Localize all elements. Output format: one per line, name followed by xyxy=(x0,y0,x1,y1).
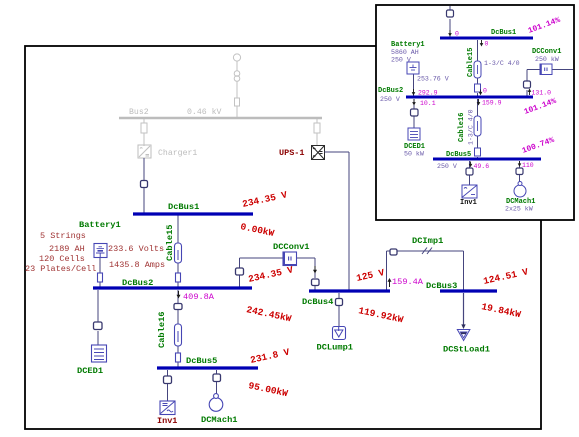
svg-text:DcBus4: DcBus4 xyxy=(302,297,333,307)
svg-text:DCImp1: DCImp1 xyxy=(412,236,443,246)
svg-text:131.0: 131.0 xyxy=(532,90,552,97)
svg-text:DCLump1: DCLump1 xyxy=(317,343,354,353)
svg-text:0: 0 xyxy=(485,41,489,48)
svg-text:DCMach1: DCMach1 xyxy=(201,415,238,425)
svg-text:Battery1: Battery1 xyxy=(391,41,425,49)
svg-text:Cable16: Cable16 xyxy=(458,113,466,142)
svg-text:159.4A: 159.4A xyxy=(392,277,424,287)
svg-text:0.46 kV: 0.46 kV xyxy=(187,107,221,117)
svg-text:250 V: 250 V xyxy=(380,96,400,103)
svg-text:233.6 Volts: 233.6 Volts xyxy=(108,244,164,254)
svg-text:Cable15: Cable15 xyxy=(165,225,175,262)
svg-text:DcBus2: DcBus2 xyxy=(122,278,153,288)
svg-text:UPS-1: UPS-1 xyxy=(279,148,305,158)
svg-text:DCED1: DCED1 xyxy=(77,366,103,376)
svg-text:159.9: 159.9 xyxy=(482,100,502,107)
svg-text:DCStLoad1: DCStLoad1 xyxy=(443,345,490,355)
svg-text:250 V: 250 V xyxy=(391,57,411,64)
svg-text:Cable15: Cable15 xyxy=(467,48,475,77)
svg-text:2189 AH: 2189 AH xyxy=(49,244,85,254)
svg-text:23 Plates/Cell: 23 Plates/Cell xyxy=(25,264,96,274)
svg-text:1435.8 Amps: 1435.8 Amps xyxy=(109,260,165,270)
svg-text:DCConv1: DCConv1 xyxy=(532,48,561,56)
svg-text:DcBus1: DcBus1 xyxy=(491,29,516,37)
svg-text:DcBus1: DcBus1 xyxy=(168,202,199,212)
svg-text:Cable16: Cable16 xyxy=(157,312,167,349)
svg-text:5 Strings: 5 Strings xyxy=(40,231,86,241)
svg-text:120 Cells: 120 Cells xyxy=(39,254,85,264)
svg-text:110: 110 xyxy=(522,162,534,169)
svg-text:DcBus5: DcBus5 xyxy=(446,151,471,159)
svg-text:Inv1: Inv1 xyxy=(157,416,177,426)
svg-text:1-3/C 4/0: 1-3/C 4/0 xyxy=(484,60,520,67)
svg-text:5860 AH: 5860 AH xyxy=(391,49,419,56)
svg-text:DCConv1: DCConv1 xyxy=(273,242,310,252)
svg-text:250 kW: 250 kW xyxy=(535,56,559,63)
svg-text:0: 0 xyxy=(483,88,487,95)
svg-text:292.9: 292.9 xyxy=(418,90,438,97)
svg-text:1-3/C 4/0: 1-3/C 4/0 xyxy=(468,109,475,145)
svg-text:DcBus5: DcBus5 xyxy=(186,356,217,366)
svg-text:50 kW: 50 kW xyxy=(404,151,424,158)
svg-text:10.1: 10.1 xyxy=(420,100,436,107)
svg-text:Battery1: Battery1 xyxy=(79,220,121,230)
svg-text:0: 0 xyxy=(455,31,459,38)
svg-text:253.76 V: 253.76 V xyxy=(417,76,449,83)
svg-text:Charger1: Charger1 xyxy=(158,148,197,158)
svg-text:Bus2: Bus2 xyxy=(129,108,149,117)
svg-text:DcBus2: DcBus2 xyxy=(378,87,403,95)
svg-text:49.6: 49.6 xyxy=(474,163,490,170)
svg-text:DcBus3: DcBus3 xyxy=(426,281,457,291)
svg-text:Inv1: Inv1 xyxy=(460,199,477,207)
svg-text:409.8A: 409.8A xyxy=(183,292,215,302)
svg-text:2x25 kW: 2x25 kW xyxy=(505,206,533,213)
svg-text:250 V: 250 V xyxy=(437,163,457,170)
